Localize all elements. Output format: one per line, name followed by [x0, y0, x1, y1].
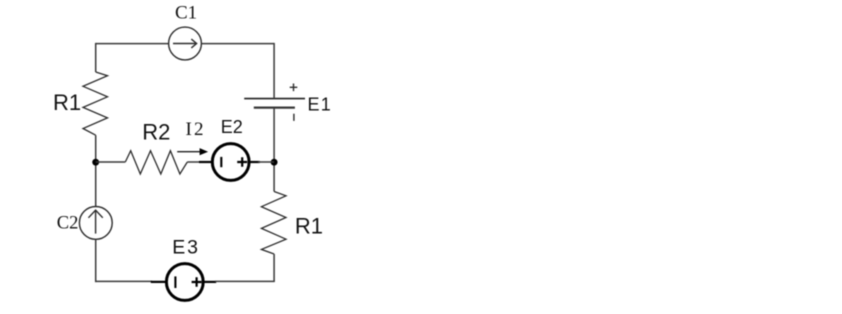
svg-text:E2: E2 [221, 117, 243, 137]
svg-text:R2: R2 [142, 119, 170, 144]
svg-text:R1: R1 [295, 213, 323, 238]
label I2 [186, 119, 206, 140]
svg-text:I2: I2 [186, 119, 206, 140]
label R2 [142, 119, 170, 144]
wire top-right horizontal [201, 43, 274, 45]
svg-text:E1: E1 [308, 94, 332, 114]
svg-text:C1: C1 [175, 3, 197, 24]
wire middle branch left [96, 161, 126, 163]
wire right rail upper [273, 43, 275, 99]
wire R2 to E2 [187, 161, 201, 163]
wire bottom right [215, 280, 275, 282]
wire bottom left [95, 280, 152, 282]
node dot right [271, 159, 278, 166]
battery E1 [244, 84, 305, 121]
svg-text:R1: R1 [53, 90, 81, 115]
label E2 [221, 117, 243, 137]
svg-text:C2: C2 [57, 214, 79, 234]
resistor R2 [125, 151, 187, 174]
current source C2 [79, 207, 112, 240]
resistor R1 right [261, 192, 286, 255]
wire right rail mid [273, 108, 275, 192]
voltage source E2 [199, 144, 260, 181]
wire top-left horizontal [96, 43, 169, 45]
wire E2 to right node [258, 161, 274, 163]
label E1 [308, 94, 332, 114]
current arrow I2 [177, 148, 208, 155]
resistor R1 left [83, 72, 108, 135]
voltage source E3 [151, 264, 216, 301]
current source C1 [169, 27, 202, 60]
label R1 right [295, 213, 323, 238]
node dot left [92, 159, 99, 166]
wire left rail upper [95, 43, 97, 72]
label C1 [175, 3, 197, 24]
label E3 [172, 237, 199, 259]
wire left rail middle [95, 135, 97, 206]
wire left rail lower [95, 239, 97, 282]
label R1 left [53, 90, 81, 115]
label C2 [57, 214, 79, 234]
svg-text:E3: E3 [172, 237, 199, 259]
wire right rail lower [273, 254, 275, 281]
